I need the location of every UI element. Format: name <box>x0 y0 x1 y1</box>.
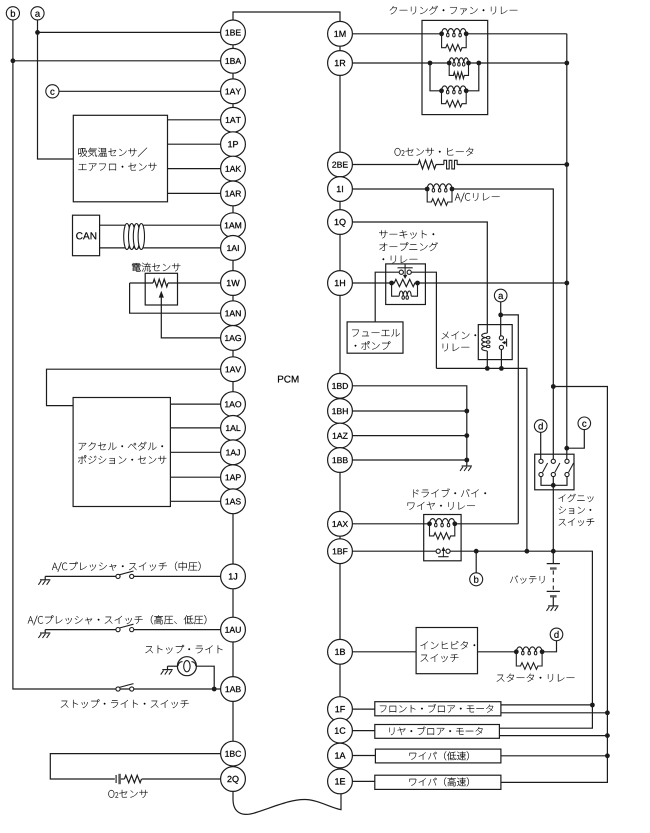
ground battery <box>548 605 558 607</box>
DBW switch contacts <box>436 549 440 553</box>
wire fan relay 3 branch <box>430 63 442 91</box>
fan relay 3 coil+resistor <box>442 86 467 91</box>
label O2 sensor <box>108 790 147 798</box>
COR resistor <box>392 279 418 286</box>
label stop light switch <box>61 699 189 708</box>
junction dot b/1BA <box>11 58 16 63</box>
wire 1A to wiper low box <box>353 755 376 757</box>
wire accel box to 1AP <box>170 476 220 478</box>
wire 1AU row right <box>134 629 221 631</box>
battery plate long top <box>547 563 560 565</box>
battery dashed middle <box>552 570 554 589</box>
accel pedal position sensor box <box>73 398 170 507</box>
wire 1BD row <box>352 386 466 460</box>
ignition switch bottom bus <box>541 477 553 486</box>
fuel pump box <box>347 322 403 353</box>
label main relay line2 <box>443 344 469 352</box>
junction dot a2 branch <box>498 313 503 318</box>
wire 1I row left <box>352 188 427 190</box>
wire sensor box to 1AR <box>168 192 221 194</box>
battery ground stub <box>552 597 554 606</box>
label ignition switch line2 <box>559 507 592 514</box>
junction dot front blower/bus <box>605 710 610 715</box>
wire sensor box to 1P <box>168 143 221 145</box>
junction dot bus/2BE <box>564 162 569 167</box>
wire COR left contact to fuel pump <box>375 272 399 322</box>
label wiper low <box>410 751 469 760</box>
PCM left column rail <box>232 20 234 792</box>
CAN box <box>73 215 100 256</box>
label battery <box>510 576 544 584</box>
label O2 sensor heater <box>395 148 474 156</box>
wire node c2 to bus <box>567 430 585 449</box>
wire 2BE row left <box>352 164 418 166</box>
main relay common line <box>436 368 527 551</box>
junction dots fan relay 1 <box>439 31 444 36</box>
label circuit opening relay line3 <box>383 256 418 264</box>
junction dot 1BF/battery <box>551 549 556 554</box>
A/C pressure switch (mid) contacts <box>116 574 120 578</box>
wire 1BA row <box>13 60 221 62</box>
junction dot 1BF/node-b2 <box>474 549 479 554</box>
rear blower motor box <box>375 725 500 739</box>
wire rear blower bottom out <box>499 735 607 737</box>
circuit opening relay box <box>386 264 426 305</box>
label inhibitor line2 <box>421 654 459 662</box>
junction dots fan relay 2 <box>428 61 433 66</box>
junction dot stop light/1AB <box>212 687 217 692</box>
wire node-a vertical to sensor box <box>38 20 74 159</box>
junction dot wiper low/bus <box>605 753 610 758</box>
ground stop light stub <box>167 666 169 669</box>
label main relay line1 <box>442 331 477 339</box>
junction dot rear blower/bus <box>605 733 610 738</box>
wire PCM top bracket 1BE-1M <box>233 12 340 22</box>
wire 1AX row <box>352 523 429 525</box>
PCM right pins <box>328 21 353 46</box>
wire cell to resistor <box>121 778 125 780</box>
A/C relay coil+resistor <box>427 184 452 189</box>
starter relay coil+resistor <box>516 647 542 652</box>
main relay coil lower stem <box>486 351 488 369</box>
wire accel box to 1AO <box>170 403 220 405</box>
wire 1H row left <box>352 282 391 284</box>
wire 1Q to main relay coil <box>352 222 487 333</box>
battery plate short top <box>550 567 557 569</box>
main relay switch lower stem <box>500 350 502 369</box>
label A/C pressure switch (mid) <box>52 562 201 572</box>
wire 2BE row right <box>457 164 567 166</box>
main relay switch bar <box>506 339 508 347</box>
wire current sensor to 1AN <box>130 283 221 313</box>
wire node b2 stem <box>475 551 477 573</box>
wire 1F to front blower box <box>353 708 375 710</box>
ignition switch bottom contacts <box>539 472 543 476</box>
junction dots fan relay 3 <box>439 88 444 93</box>
node d2 (starter) <box>550 628 563 641</box>
label drive-by-wire relay line2 <box>408 502 475 510</box>
ground group stub <box>466 460 468 466</box>
COR switch arrow <box>404 268 406 276</box>
ignition switch blades <box>543 463 548 472</box>
wire wiper low out <box>501 755 608 757</box>
wire accel box to 1AS <box>170 500 220 502</box>
drive-by-wire relay box <box>424 515 461 561</box>
wire 1BH row <box>352 410 466 412</box>
wire 1BE row <box>38 31 221 33</box>
node c <box>46 85 59 98</box>
wire 1M row <box>352 33 441 35</box>
label stop light <box>145 645 222 654</box>
label inhibitor line1 <box>421 641 476 649</box>
cooling fan relay box <box>422 20 488 114</box>
front blower motor box <box>375 702 501 716</box>
junction dots ground group <box>464 409 469 414</box>
ground stop light <box>162 669 172 671</box>
label ignition switch line1 <box>559 494 594 502</box>
label drive-by-wire relay line1 <box>413 489 486 498</box>
O2 heater resistor <box>418 160 436 169</box>
junction dots 1H/COR <box>389 281 394 286</box>
wire 1BC to O2 sensor <box>50 754 220 779</box>
label starter relay <box>497 674 575 682</box>
wire 1AU row left <box>45 629 116 631</box>
wire accel box to 1AJ <box>170 451 220 453</box>
CAN label <box>76 232 96 239</box>
wire front blower bottom out <box>501 712 608 714</box>
DBW switch plunger <box>438 556 448 558</box>
node d (ignition) <box>534 420 547 433</box>
label fuel pump line2 <box>355 341 391 350</box>
junction dot bus/1H <box>564 281 569 286</box>
wire sensor box to 1AT <box>168 119 221 121</box>
PCM label <box>278 376 298 383</box>
wire 1I row right then down to ignition switch <box>452 189 553 459</box>
wire 1AV to sensor box <box>47 369 221 405</box>
COR switch contacts <box>399 270 403 274</box>
inhibitor switch box <box>416 628 477 674</box>
CAN twisted-pair symbol <box>124 224 130 250</box>
label A/C relay <box>455 193 500 203</box>
wire node-b vertical + 1AB row <box>13 20 221 689</box>
label front blower motor <box>380 704 493 712</box>
ignition switch box <box>535 454 574 490</box>
ground PCM signal ground <box>462 465 472 467</box>
stop light lamp <box>177 657 196 676</box>
ground A/C mid stub <box>44 576 46 579</box>
wire CAN to 1AM <box>100 224 221 226</box>
wire 1W row left segment <box>130 282 153 284</box>
wiper low box <box>375 749 501 763</box>
wire O2 sensor to 2Q <box>142 778 221 780</box>
PCM left pins <box>221 20 246 45</box>
wire 1E to wiper high box <box>353 780 375 782</box>
junction dot 1BF/main-relay-common <box>525 549 530 554</box>
ignition switch top contacts <box>539 459 543 463</box>
node a <box>31 7 44 20</box>
node b2 <box>470 573 483 586</box>
wire 1AG wiper arrow <box>161 297 220 338</box>
junction dot front blower/592 rail <box>590 703 595 708</box>
fan relay 2 coil+resistor <box>449 58 468 63</box>
node a2 (main relay) <box>494 289 507 302</box>
O2 sensor cell thin plate <box>115 775 117 783</box>
ground A/C high stub <box>44 630 46 633</box>
wire rear blower top out <box>499 705 592 728</box>
junction dot c2/bus <box>564 446 569 451</box>
junction dot ignition branch <box>551 384 556 389</box>
label A/C pressure switch (high,low) <box>28 615 207 625</box>
label circuit opening relay line1 <box>379 230 434 238</box>
wire right bus from 1M <box>566 34 568 461</box>
node c2 (ignition) <box>578 417 591 430</box>
wire 1BF row <box>352 550 436 552</box>
wire 1BB row <box>352 459 466 461</box>
wire 1AY row from node c <box>59 90 221 92</box>
label current sensor <box>132 263 180 272</box>
O2 sensor cell thick plate <box>118 774 121 784</box>
stop light switch contacts <box>116 687 120 691</box>
junction dot bus/1R <box>564 61 569 66</box>
battery plate short bottom <box>550 595 557 597</box>
wire stop light right to 1AB row <box>196 666 214 689</box>
wire CAN to 1AI <box>100 247 221 249</box>
wire 2BE mid <box>436 164 444 166</box>
label intake air temp sensor line1 <box>78 148 147 157</box>
O2 heater element <box>444 160 466 169</box>
A/C pressure switch (high/low) contacts <box>116 628 120 632</box>
main relay coil <box>482 333 487 351</box>
wire 1B row <box>352 651 416 653</box>
COR coil parallel <box>392 283 400 296</box>
wire starter relay to node d2 <box>542 641 556 652</box>
COR switch bar <box>398 267 413 269</box>
junction dots A/C relay <box>425 187 430 192</box>
label airflow sensor line2 <box>78 163 156 171</box>
label accel pedal line1 <box>79 442 163 451</box>
main relay switch contacts <box>499 336 503 340</box>
wire 1J row right <box>134 575 221 577</box>
ground A/C high <box>40 632 50 634</box>
wiper high box <box>375 775 501 789</box>
wire 1H row right <box>418 282 567 284</box>
wire sensor box to 1AK <box>168 168 221 170</box>
intake air temp / airflow sensor box <box>73 115 167 202</box>
wire node a2 to main relay switch <box>500 302 502 336</box>
wire 1R row <box>352 62 449 64</box>
label cooling fan relay <box>390 6 518 15</box>
O2 sensor resistor <box>124 775 141 782</box>
label ignition switch line3 <box>559 518 595 526</box>
junction dots DBW coil <box>427 521 432 526</box>
label circuit opening relay line2 <box>380 242 438 251</box>
ground A/C mid <box>40 579 50 581</box>
battery plate long bottom <box>547 590 560 592</box>
label accel pedal line2 <box>78 455 166 464</box>
label fuel pump line1 <box>352 329 400 337</box>
wire node d to ignition switch <box>540 432 542 459</box>
wire inhibitor to starter relay <box>478 651 517 653</box>
fan relay 1 coil+resistor <box>442 29 467 34</box>
drive-by-wire relay coil+resistor <box>430 519 455 524</box>
wire a2 branch down to drive-by-wire coil <box>501 315 519 524</box>
wire 1W row right segment <box>168 282 221 284</box>
wire 1AZ row <box>352 435 466 437</box>
wire 1J row left <box>45 575 116 577</box>
wire front blower top out <box>501 704 593 706</box>
wire COR right contact down to main relay common <box>411 272 436 368</box>
current sensor resistor <box>153 279 168 287</box>
current sensor box <box>145 273 177 305</box>
wire ignition to battery <box>552 485 554 563</box>
PCM right column rail <box>339 21 341 794</box>
junction dots starter relay <box>514 649 519 654</box>
junction dot a/1BE <box>35 30 40 35</box>
wire accel box to 1AL <box>170 427 220 429</box>
junction dots main relay common <box>485 366 490 371</box>
wire stop light left <box>168 665 178 667</box>
label rear blower motor <box>390 727 483 736</box>
label wiper high <box>410 777 469 786</box>
main relay box <box>478 325 512 360</box>
wire branch to far right bus <box>501 387 608 783</box>
wire 1C to rear blower box <box>353 730 375 732</box>
junction dot ignition common <box>551 483 556 488</box>
node b <box>6 7 19 20</box>
PCM bottom wavy outline <box>233 790 341 814</box>
